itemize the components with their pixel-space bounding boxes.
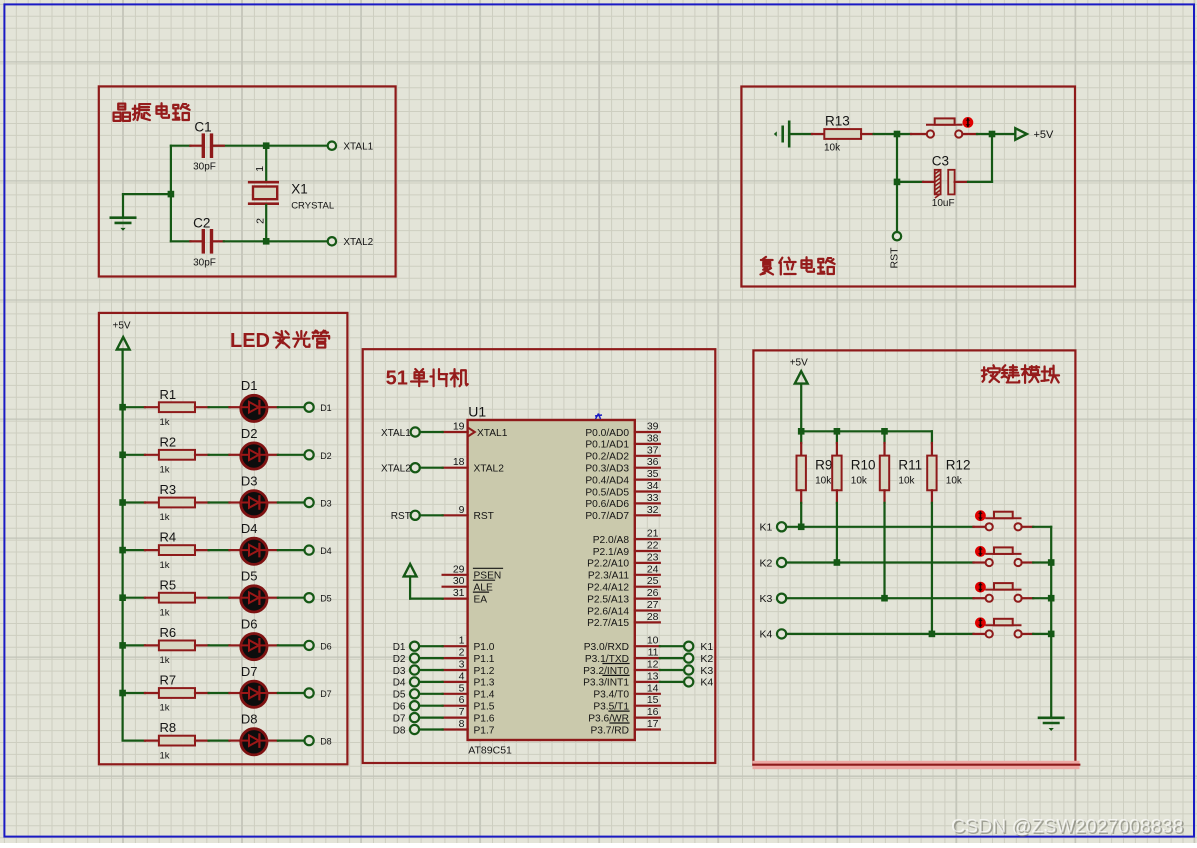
resistor R5 1k xyxy=(159,577,195,618)
U1 pin 30 ALE xyxy=(443,575,495,593)
title LED发光管 xyxy=(230,330,329,352)
svg-text:D4: D4 xyxy=(393,678,406,689)
svg-text:P0.7/AD7: P0.7/AD7 xyxy=(585,511,629,522)
svg-text:51: 51 xyxy=(386,368,408,390)
svg-text:R2: R2 xyxy=(160,434,177,449)
capacitor C1 30pF xyxy=(193,120,216,173)
svg-text:R9: R9 xyxy=(815,458,832,473)
wire crystal pin 1 xyxy=(265,146,267,181)
svg-text:XTAL2: XTAL2 xyxy=(381,464,411,475)
svg-text:C2: C2 xyxy=(193,215,210,230)
U1 pin 6 P1.5 xyxy=(443,694,495,712)
U1 pin 18 XTAL2 xyxy=(443,456,505,474)
U1 pin 23 P2.2/A10 xyxy=(587,551,660,569)
node junction rail row 7 xyxy=(119,690,126,697)
svg-text:1k: 1k xyxy=(160,750,170,761)
svg-text:24: 24 xyxy=(647,563,659,575)
resistor R3 1k xyxy=(159,482,195,523)
svg-text:P1.6: P1.6 xyxy=(474,713,495,724)
node junction rail row 6 xyxy=(119,642,126,649)
terminal K3 (keys) xyxy=(759,593,786,605)
title 51单片机 xyxy=(386,368,468,390)
svg-text:D3: D3 xyxy=(320,499,332,509)
svg-text:35: 35 xyxy=(647,468,659,480)
svg-text:P3.3/INT1: P3.3/INT1 xyxy=(583,678,629,689)
node junction R11 / K3 row xyxy=(881,595,888,602)
node junction rail R9 / +5V xyxy=(798,428,805,435)
svg-text:P1.7: P1.7 xyxy=(474,725,495,736)
wire junction to button xyxy=(897,133,927,135)
resistor R2 1k xyxy=(159,434,195,475)
button K3 actuator indicator (red) xyxy=(975,582,986,593)
svg-text:R7: R7 xyxy=(160,673,177,688)
resistor R1 1k xyxy=(159,387,195,428)
svg-text:P0.5/AD5: P0.5/AD5 xyxy=(585,487,629,498)
U1 pin 33 P0.6/AD6 xyxy=(585,492,659,510)
button actuator indicator (red) xyxy=(963,117,974,128)
watermark xyxy=(951,816,1185,840)
resistor R12 10k xyxy=(927,431,970,503)
svg-text:D5: D5 xyxy=(320,594,332,604)
node junction rail row 3 xyxy=(119,499,126,506)
push button (reset) xyxy=(927,118,963,137)
resistor R10 10k xyxy=(832,431,875,503)
svg-text:P1.0: P1.0 xyxy=(474,642,495,653)
wire R7 to D7 xyxy=(195,692,240,694)
svg-text:P1.5: P1.5 xyxy=(474,702,495,713)
node junction ground rail K3 xyxy=(1048,595,1055,602)
wire rail to R1 xyxy=(123,406,159,408)
node junction rail row 2 xyxy=(119,452,126,459)
node junction R10 / K2 row xyxy=(834,559,841,566)
title 按键模块 xyxy=(982,365,1059,383)
svg-text:XTAL2: XTAL2 xyxy=(474,464,505,475)
svg-text:RST: RST xyxy=(474,511,494,522)
svg-text:P1.1: P1.1 xyxy=(474,654,495,665)
resistor R4 1k xyxy=(159,530,195,571)
svg-text:P0.4/AD4: P0.4/AD4 xyxy=(585,475,629,486)
svg-text:R12: R12 xyxy=(946,458,971,473)
svg-text:39: 39 xyxy=(647,421,659,433)
U1 pin 39 P0.0/AD0 xyxy=(585,421,659,439)
U1 pin 14 P3.4/T0 xyxy=(593,682,659,700)
svg-text:U1: U1 xyxy=(468,404,486,420)
svg-text:D8: D8 xyxy=(393,725,406,736)
power pin marker (blue) xyxy=(595,414,602,420)
svg-text:P1.3: P1.3 xyxy=(474,678,495,689)
wire R2 to D2 xyxy=(195,454,240,456)
module box: reset circuit xyxy=(741,87,1075,287)
wire R4 to D4 xyxy=(195,549,240,551)
svg-text:1: 1 xyxy=(254,166,266,172)
svg-text:D4: D4 xyxy=(320,546,332,556)
svg-text:23: 23 xyxy=(647,551,659,563)
U1 pin 24 P2.3/A11 xyxy=(588,563,660,581)
svg-text:8: 8 xyxy=(459,718,465,730)
svg-text:27: 27 xyxy=(647,599,659,611)
terminal D4 xyxy=(305,546,332,557)
terminal K2 (MCU) xyxy=(660,653,714,665)
svg-text:+5V: +5V xyxy=(790,357,808,368)
wire ground to R13 xyxy=(789,133,824,135)
svg-text:21: 21 xyxy=(647,528,659,540)
svg-text:10k: 10k xyxy=(824,143,841,154)
node junction rail R11 xyxy=(881,428,888,435)
svg-text:1k: 1k xyxy=(160,512,170,523)
terminal D2 xyxy=(305,450,332,461)
svg-text:K2: K2 xyxy=(759,557,772,569)
wire button K4 to ground rail xyxy=(1022,633,1052,635)
svg-text:38: 38 xyxy=(647,432,659,444)
resistor R11 10k xyxy=(880,431,922,503)
svg-text:30pF: 30pF xyxy=(193,162,216,173)
wire D5 to terminal xyxy=(267,597,304,599)
terminal D3 (MCU) xyxy=(393,665,443,676)
U1 pin 27 P2.6/A14 xyxy=(587,599,660,617)
svg-text:P0.6/AD6: P0.6/AD6 xyxy=(585,499,629,510)
svg-text:D2: D2 xyxy=(241,426,258,441)
module box: 51 MCU xyxy=(363,349,716,763)
resistor R6 1k xyxy=(159,625,195,666)
U1 pin 21 P2.0/A8 xyxy=(593,528,660,546)
pin number 1 of X1 xyxy=(254,166,266,172)
svg-text:RST: RST xyxy=(391,511,411,522)
svg-text:14: 14 xyxy=(647,682,659,694)
node junction R12 / K4 row xyxy=(929,631,936,638)
U1 pin 15 P3.5/T1 xyxy=(593,694,659,712)
wire C3 left xyxy=(897,181,935,183)
wire left rail C1-C2 xyxy=(171,146,202,242)
svg-text:D6: D6 xyxy=(241,616,258,631)
wire R9 down to K1 row xyxy=(800,503,802,527)
terminal D5 xyxy=(305,593,332,604)
wire K1 terminal to button xyxy=(786,526,986,528)
svg-text:K4: K4 xyxy=(700,677,713,689)
svg-text:XTAL2: XTAL2 xyxy=(343,237,373,248)
node junction at crystal pin 1 xyxy=(263,142,270,149)
svg-text:2: 2 xyxy=(459,647,465,659)
svg-text:R4: R4 xyxy=(160,530,177,545)
node junction ground rail K4 xyxy=(1048,631,1055,638)
wire crystal pin 2 xyxy=(265,205,267,241)
wire button K2 to ground rail xyxy=(1022,561,1052,563)
terminal K3 (MCU) xyxy=(660,665,714,677)
svg-text:1k: 1k xyxy=(160,417,170,428)
wire rail to R2 xyxy=(123,454,159,456)
title 晶振电路 xyxy=(114,103,190,121)
U1 pin 5 P1.4 xyxy=(443,682,495,700)
wire R8 to D8 xyxy=(195,739,240,741)
svg-text:1k: 1k xyxy=(160,607,170,618)
svg-text:33: 33 xyxy=(647,492,659,504)
svg-text:K2: K2 xyxy=(700,653,713,665)
title 复位电路 xyxy=(761,257,835,275)
LED D5 xyxy=(241,569,267,612)
svg-text:EA: EA xyxy=(474,594,488,605)
svg-text:19: 19 xyxy=(453,421,465,433)
U1 pin 11 P3.1/TXD xyxy=(585,647,660,665)
svg-text:R5: R5 xyxy=(160,577,177,592)
svg-text:D6: D6 xyxy=(320,641,332,651)
svg-text:D4: D4 xyxy=(241,521,258,536)
wire R10 down to K2 row xyxy=(836,503,838,563)
U1 pin 12 P3.2/INT0 xyxy=(583,659,660,677)
node junction rail row 4 xyxy=(119,547,126,554)
svg-text:P0.2/AD2: P0.2/AD2 xyxy=(585,452,629,463)
U1 pin 22 P2.1/A9 xyxy=(593,540,660,558)
svg-text:C1: C1 xyxy=(194,120,211,135)
wire button K3 to ground rail xyxy=(1022,597,1052,599)
LED D3 xyxy=(241,474,267,517)
terminal RST (MCU) xyxy=(391,511,443,522)
push button K2 xyxy=(986,547,1022,566)
power +5V (LED rail) xyxy=(113,321,131,350)
wire D1 to terminal xyxy=(267,406,304,408)
terminal D8 xyxy=(305,736,332,747)
svg-text:10: 10 xyxy=(647,635,659,647)
svg-text:2: 2 xyxy=(255,218,267,224)
U1 pin 34 P0.5/AD5 xyxy=(585,480,659,498)
svg-text:P0.0/AD0: P0.0/AD0 xyxy=(585,428,629,439)
svg-text:1: 1 xyxy=(459,635,465,647)
U1 pin 1 P1.0 xyxy=(443,635,495,653)
node junction ground rail K2 xyxy=(1048,559,1055,566)
svg-text:7: 7 xyxy=(459,706,465,718)
resistor R13 10k xyxy=(824,114,861,154)
wire D7 to terminal xyxy=(267,692,304,694)
svg-text:D7: D7 xyxy=(241,664,258,679)
svg-text:R1: R1 xyxy=(160,387,177,402)
svg-text:32: 32 xyxy=(647,504,659,516)
terminal D4 (MCU) xyxy=(393,677,443,688)
svg-text:P2.6/A14: P2.6/A14 xyxy=(587,606,629,617)
U1 pin 36 P0.3/AD3 xyxy=(585,456,659,474)
svg-text:10uF: 10uF xyxy=(932,198,955,209)
svg-text:D1: D1 xyxy=(393,642,406,653)
wire rail to R8 xyxy=(123,739,159,741)
svg-text:28: 28 xyxy=(647,611,659,623)
U1 pin 38 P0.1/AD1 xyxy=(585,432,659,450)
U1 pin 25 P2.4/A12 xyxy=(587,575,660,593)
svg-text:AT89C51: AT89C51 xyxy=(468,745,512,757)
svg-text:+5V: +5V xyxy=(1034,129,1055,141)
node junction C3 left xyxy=(894,179,901,186)
wire ground branch xyxy=(123,193,171,195)
terminal D1 xyxy=(305,403,332,414)
LED D6 xyxy=(241,616,267,659)
svg-text:R13: R13 xyxy=(825,114,850,129)
wire +5V stem to rail xyxy=(800,384,802,432)
svg-text:D3: D3 xyxy=(393,666,406,677)
svg-text:D3: D3 xyxy=(241,474,258,489)
svg-text:37: 37 xyxy=(647,444,659,456)
wire RST down xyxy=(896,182,898,232)
node junction rail R10 xyxy=(834,428,841,435)
terminal D5 (MCU) xyxy=(393,689,443,700)
LED D7 xyxy=(241,664,267,707)
svg-text:K3: K3 xyxy=(700,665,713,677)
U1 pin 9 RST xyxy=(443,504,494,522)
wire XTAL1 net: C1 right plate to terminal xyxy=(213,145,328,147)
node junction rail row 1 xyxy=(119,404,126,411)
wire rail to R7 xyxy=(123,692,159,694)
svg-text:30: 30 xyxy=(453,575,465,587)
svg-text:D8: D8 xyxy=(320,737,332,747)
chip U1 AT89C51 body xyxy=(468,404,635,757)
capacitor C2 30pF xyxy=(193,215,216,268)
svg-text:15: 15 xyxy=(647,694,659,706)
power +5V (keys) xyxy=(790,357,808,383)
svg-text:D5: D5 xyxy=(241,569,258,584)
svg-text:K4: K4 xyxy=(759,629,772,641)
wire +5V rail vertical xyxy=(121,350,123,741)
power arrow EA net xyxy=(404,564,443,599)
svg-text:1k: 1k xyxy=(160,465,170,476)
svg-text:D6: D6 xyxy=(393,702,406,713)
wire R3 to D3 xyxy=(195,501,240,503)
resistor R9 10k xyxy=(797,431,833,503)
U1 pin 37 P0.2/AD2 xyxy=(585,444,659,462)
terminal K1 (MCU) xyxy=(660,641,714,653)
svg-text:P2.3/A11: P2.3/A11 xyxy=(588,571,629,582)
pin number 2 of X1 xyxy=(255,218,267,224)
push button K3 xyxy=(986,583,1022,602)
wire rail to R3 xyxy=(123,501,159,503)
svg-text:R8: R8 xyxy=(160,720,177,735)
terminal D8 (MCU) xyxy=(393,725,443,736)
svg-text:R3: R3 xyxy=(160,482,177,497)
terminal XTAL1 xyxy=(328,142,374,153)
wire button to +5V xyxy=(962,133,1014,135)
terminal K2 (keys) xyxy=(759,557,786,569)
svg-text:1k: 1k xyxy=(160,560,170,571)
U1 pin 26 P2.5/A13 xyxy=(587,587,660,605)
svg-text:C3: C3 xyxy=(932,154,949,169)
wire XTAL2 net: C2 to terminal xyxy=(213,240,328,242)
svg-text:P3.0/RXD: P3.0/RXD xyxy=(584,642,629,653)
button K4 actuator indicator (red) xyxy=(975,617,986,628)
terminal RST xyxy=(889,232,902,269)
module box: crystal oscillator circuit xyxy=(99,86,396,276)
U1 pin 29 PSEN xyxy=(443,563,503,581)
svg-text:D1: D1 xyxy=(241,378,258,393)
svg-text:36: 36 xyxy=(647,456,659,468)
node junction at C3 right branch xyxy=(989,131,996,138)
terminal K1 (keys) xyxy=(759,522,786,534)
svg-text:D8: D8 xyxy=(241,712,258,727)
svg-text:9: 9 xyxy=(459,504,465,516)
svg-text:K3: K3 xyxy=(759,593,772,605)
wire R11 down to K3 row xyxy=(883,503,885,598)
terminal D3 xyxy=(305,498,332,509)
terminal D6 xyxy=(305,641,332,652)
node junction rail row 5 xyxy=(119,594,126,601)
terminal K4 (MCU) xyxy=(660,677,714,689)
svg-text:X1: X1 xyxy=(291,181,308,196)
svg-text:P0.1/AD1: P0.1/AD1 xyxy=(585,440,629,451)
wire button K1 to ground rail xyxy=(1022,526,1052,528)
terminal D6 (MCU) xyxy=(393,701,443,712)
svg-text:34: 34 xyxy=(647,480,659,492)
terminal D7 (MCU) xyxy=(393,713,443,724)
svg-text:D2: D2 xyxy=(393,654,406,665)
svg-text:XTAL1: XTAL1 xyxy=(477,428,508,439)
resistor R7 1k xyxy=(159,673,195,714)
svg-text:26: 26 xyxy=(647,587,659,599)
svg-text:K1: K1 xyxy=(700,641,713,653)
LED D2 xyxy=(241,426,267,469)
capacitor C3 10uF (polarized) xyxy=(932,154,955,209)
wire R6 to D6 xyxy=(195,644,240,646)
U1 pin 16 P3.6/WR xyxy=(588,706,660,724)
svg-text:D7: D7 xyxy=(393,713,406,724)
svg-text:R11: R11 xyxy=(898,458,922,473)
wire R13 to junction xyxy=(861,133,897,135)
svg-text:XTAL1: XTAL1 xyxy=(343,142,373,153)
node junction left rail / ground xyxy=(168,191,175,198)
svg-text:31: 31 xyxy=(453,587,465,599)
node junction at crystal pin 2 xyxy=(263,238,270,245)
svg-text:D1: D1 xyxy=(320,403,332,413)
svg-text:R6: R6 xyxy=(160,625,177,640)
svg-text:P2.4/A12: P2.4/A12 xyxy=(587,583,629,594)
svg-text:30pF: 30pF xyxy=(193,258,216,269)
svg-text:CSDN @ZSW2027008838: CSDN @ZSW2027008838 xyxy=(951,816,1183,838)
svg-text:13: 13 xyxy=(647,670,659,682)
svg-text:10k: 10k xyxy=(851,475,868,486)
U1 pin 32 P0.7/AD7 xyxy=(585,504,659,522)
wire D6 to terminal xyxy=(267,644,304,646)
button K2 actuator indicator (red) xyxy=(975,546,986,557)
push button K1 xyxy=(986,512,1022,531)
wire rail to R4 xyxy=(123,549,159,551)
svg-text:P2.1/A9: P2.1/A9 xyxy=(593,547,630,558)
U1 pin 3 P1.2 xyxy=(443,659,495,677)
svg-text:12: 12 xyxy=(647,659,659,671)
svg-text:10k: 10k xyxy=(946,475,963,486)
wire D8 to terminal xyxy=(267,739,304,741)
terminal D2 (MCU) xyxy=(393,654,443,665)
svg-text:D7: D7 xyxy=(320,689,332,699)
U1 pin 13 P3.3/INT1 xyxy=(583,670,660,688)
wire C3 right up to +5V net xyxy=(955,134,992,182)
svg-text:16: 16 xyxy=(647,706,659,718)
U1 pin 8 P1.7 xyxy=(443,718,495,736)
svg-text:10k: 10k xyxy=(815,475,832,486)
svg-text:P3.4/T0: P3.4/T0 xyxy=(593,690,629,701)
wire junction down to C3 row xyxy=(896,134,898,182)
U1 pin 31 EA xyxy=(443,587,489,605)
wire K3 terminal to button xyxy=(786,597,986,599)
svg-text:1k: 1k xyxy=(160,703,170,714)
wire D3 to terminal xyxy=(267,501,304,503)
U1 pin 2 P1.1 xyxy=(443,647,495,665)
svg-text:D2: D2 xyxy=(320,451,332,461)
crystal X1 xyxy=(248,181,334,212)
module box: key/button module xyxy=(753,350,1075,764)
wire rail to R6 xyxy=(123,644,159,646)
button K1 actuator indicator (red) xyxy=(975,510,986,521)
resistor R8 1k xyxy=(159,720,195,761)
svg-text:25: 25 xyxy=(647,575,659,587)
svg-text:4: 4 xyxy=(459,670,465,682)
svg-text:LED: LED xyxy=(230,330,270,352)
wire K2 terminal to button xyxy=(786,561,986,563)
wire D2 to terminal xyxy=(267,454,304,456)
svg-text:6: 6 xyxy=(459,694,465,706)
svg-text:RST: RST xyxy=(889,247,901,269)
terminal D7 xyxy=(305,688,332,699)
